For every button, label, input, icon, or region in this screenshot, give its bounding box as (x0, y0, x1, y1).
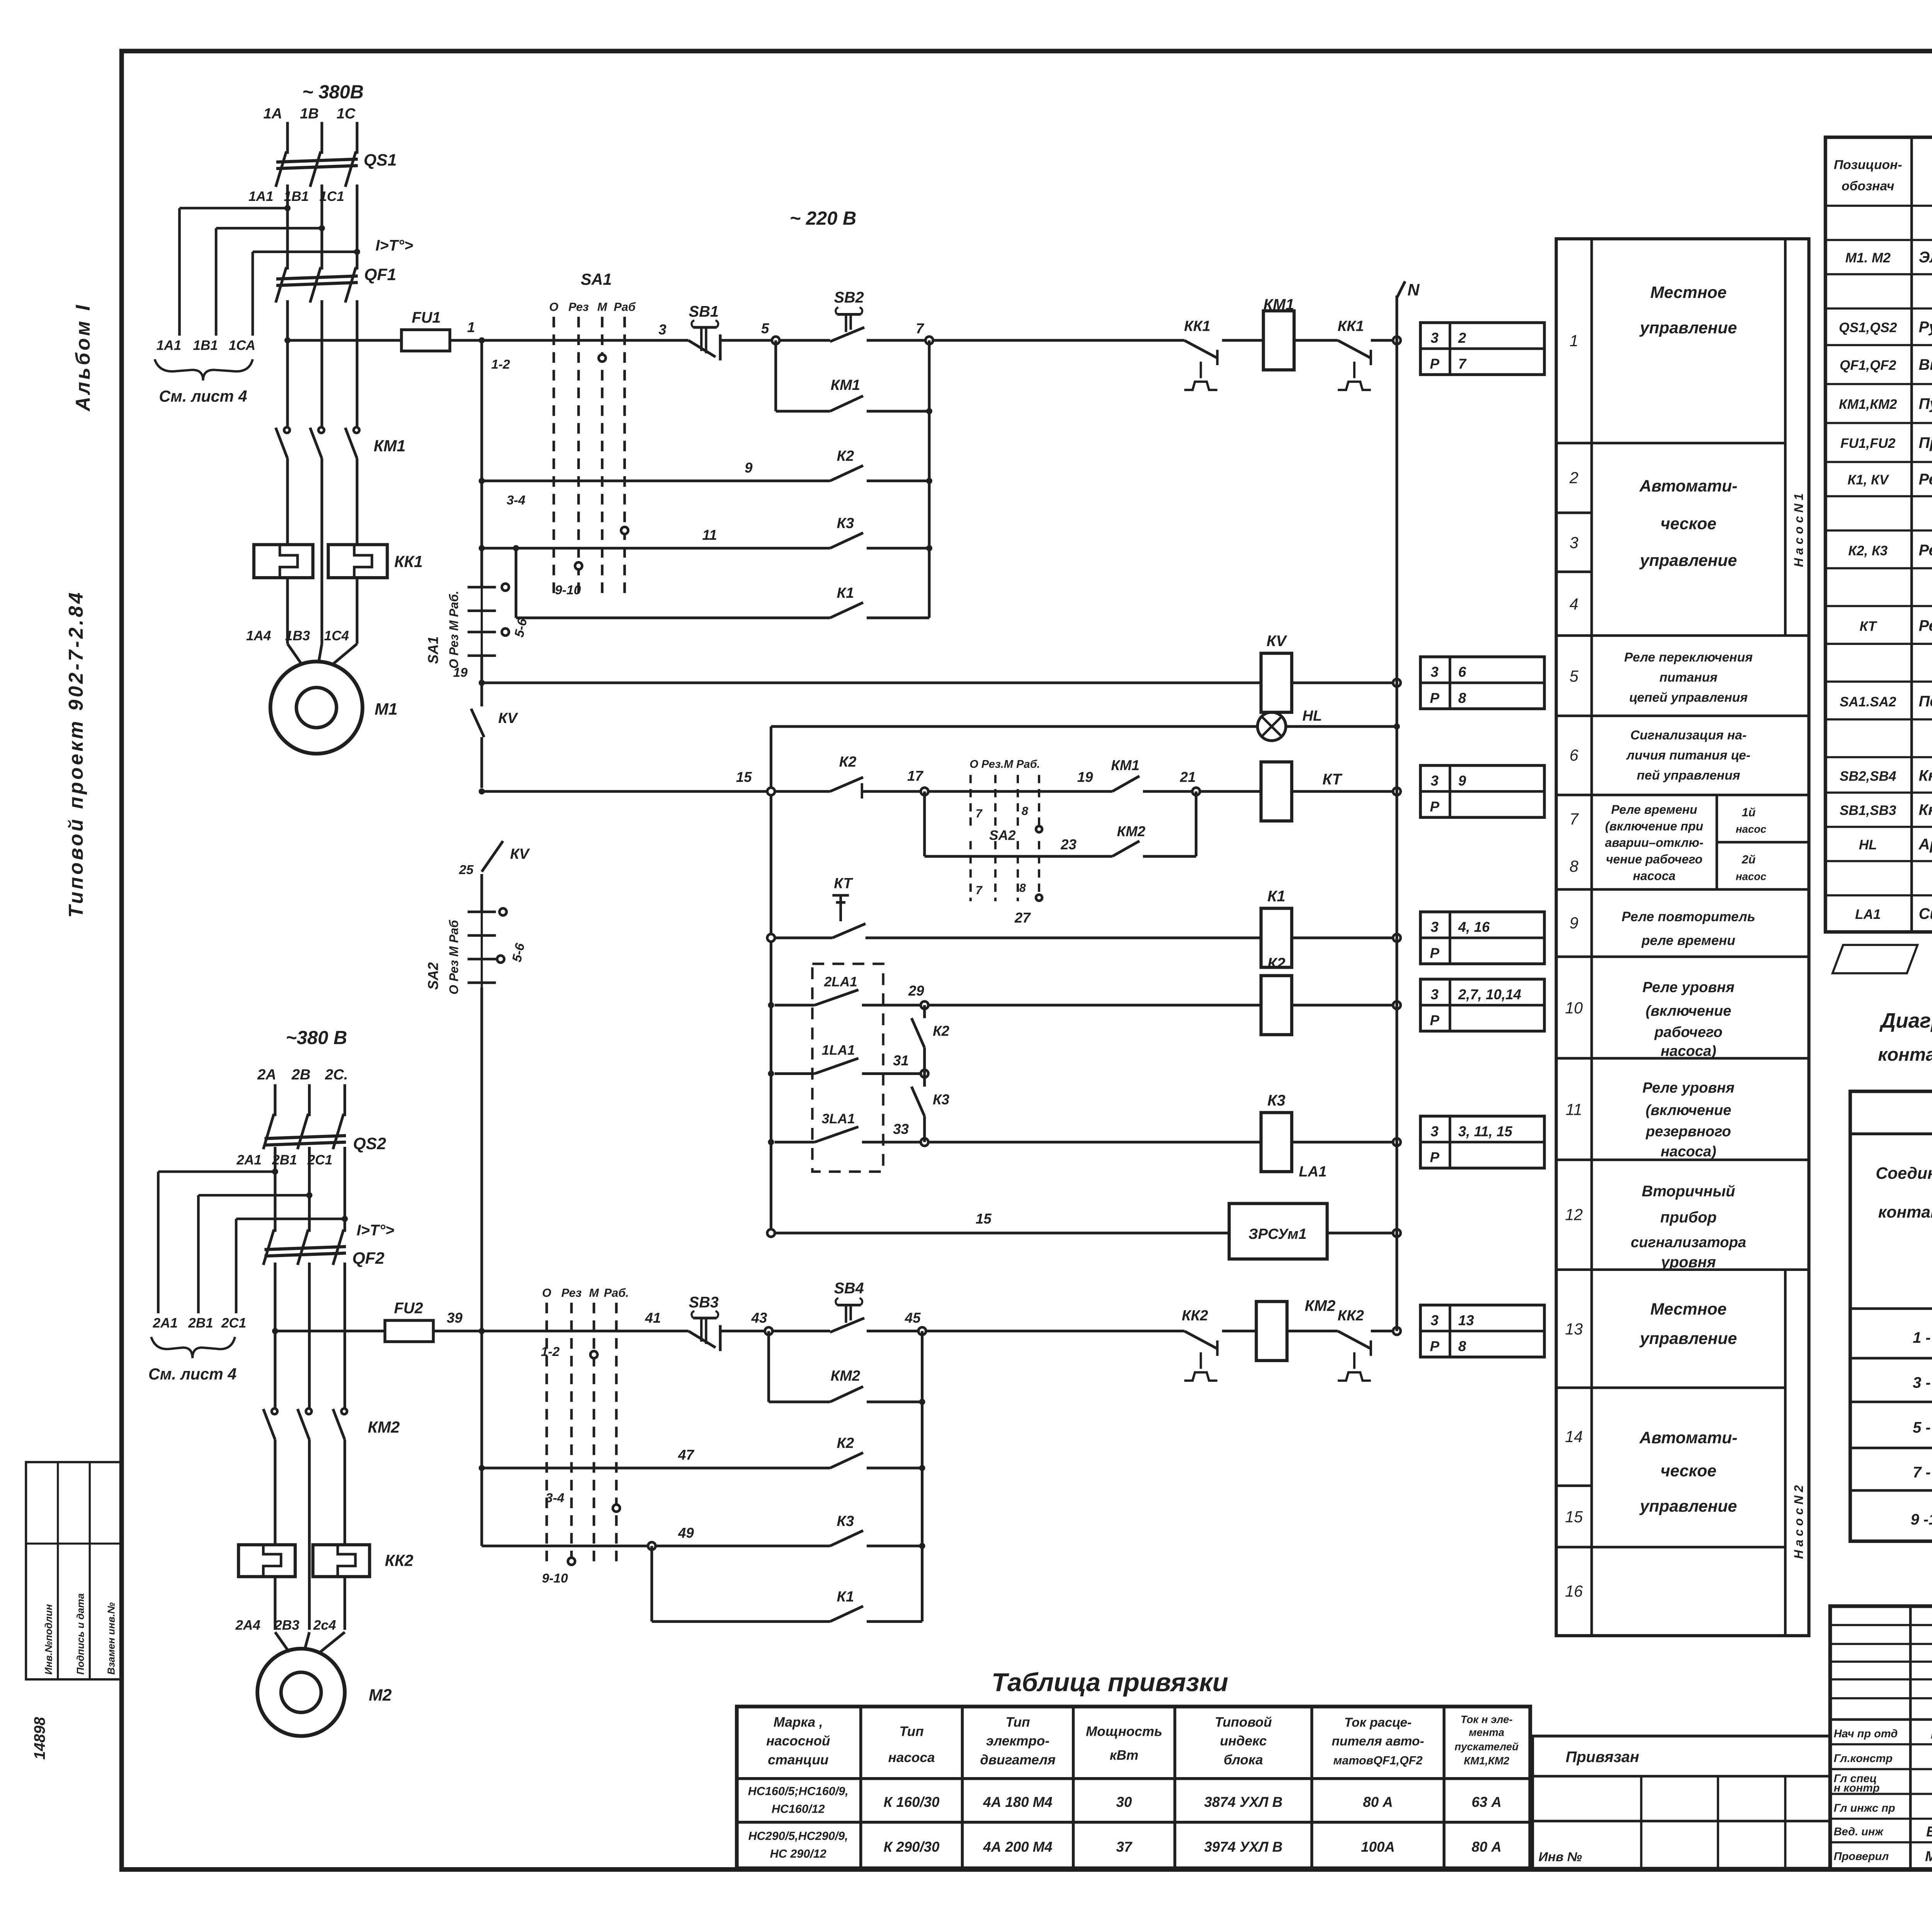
svg-text:3, 11, 15: 3, 11, 15 (1458, 1123, 1513, 1139)
svg-text:реле времени: реле времени (1641, 933, 1735, 948)
svg-text:Реле времени: Реле времени (1611, 803, 1697, 816)
svg-text:27: 27 (1014, 910, 1031, 925)
svg-text:Р: Р (1430, 1339, 1440, 1354)
svg-text:Малышев: Малышев (1925, 1849, 1932, 1864)
svg-text:39: 39 (447, 1310, 463, 1326)
svg-text:Привязан: Привязан (1566, 1749, 1639, 1766)
svg-text:О Рез М Раб.: О Рез М Раб. (447, 591, 461, 669)
svg-text:80 А: 80 А (1363, 1794, 1393, 1810)
svg-text:уровня: уровня (1660, 1254, 1716, 1271)
svg-text:10: 10 (1565, 999, 1583, 1017)
svg-text:К2: К2 (839, 754, 857, 770)
svg-text:К3: К3 (837, 515, 854, 532)
svg-text:Р: Р (1430, 1150, 1440, 1165)
svg-text:цепей управления: цепей управления (1629, 691, 1748, 705)
svg-text:КV: КV (498, 710, 519, 726)
svg-text:блока: блока (1224, 1752, 1263, 1767)
svg-text:1А: 1А (263, 105, 282, 122)
svg-text:Гл инжс пр: Гл инжс пр (1834, 1802, 1895, 1814)
svg-text:КК1: КК1 (394, 553, 423, 571)
svg-text:11: 11 (1566, 1101, 1582, 1118)
svg-text:1С: 1С (337, 105, 356, 122)
svg-text:насос: насос (1736, 823, 1766, 835)
svg-text:индекс: индекс (1220, 1733, 1267, 1749)
svg-text:управление: управление (1639, 1497, 1737, 1516)
svg-text:3: 3 (658, 322, 666, 338)
svg-text:управление: управление (1639, 1329, 1737, 1348)
svg-text:3: 3 (1431, 664, 1439, 680)
svg-text:1: 1 (1570, 332, 1578, 350)
svg-text:8: 8 (1570, 857, 1578, 875)
svg-text:16: 16 (1565, 1582, 1583, 1600)
svg-text:Рез: Рез (561, 1286, 582, 1300)
svg-text:19: 19 (453, 666, 468, 680)
svg-text:КМ1: КМ1 (831, 377, 861, 393)
svg-text:11: 11 (702, 527, 717, 543)
svg-text:К3: К3 (1267, 1092, 1286, 1109)
svg-text:SА1: SА1 (581, 270, 612, 288)
svg-text:15: 15 (736, 769, 752, 785)
svg-text:LА1: LА1 (1299, 1163, 1327, 1180)
svg-text:47: 47 (678, 1447, 694, 1463)
svg-text:пускателей: пускателей (1454, 1740, 1519, 1752)
svg-text:Ток н эле-: Ток н эле- (1461, 1713, 1513, 1725)
svg-text:К1, КV: К1, КV (1847, 473, 1889, 488)
svg-text:К3: К3 (933, 1092, 949, 1107)
svg-text:2А1: 2А1 (236, 1153, 262, 1168)
svg-text:3: 3 (1431, 919, 1439, 935)
svg-text:QS1: QS1 (364, 151, 397, 170)
svg-text:1В1: 1В1 (193, 338, 218, 353)
svg-text:Р: Р (1430, 945, 1440, 961)
svg-text:8: 8 (1019, 881, 1026, 895)
svg-text:КМ2: КМ2 (368, 1418, 400, 1436)
svg-text:прибор: прибор (1660, 1209, 1717, 1226)
svg-text:Предохранитель I пл.в ст. = 6: Предохранитель I пл.в ст. = 6 А (1919, 434, 1932, 451)
svg-text:29: 29 (908, 983, 924, 999)
svg-text:насос: насос (1736, 870, 1766, 882)
svg-text:3: 3 (1431, 987, 1439, 1002)
svg-text:QF2: QF2 (352, 1249, 384, 1267)
svg-text:FU1,FU2: FU1,FU2 (1840, 436, 1896, 451)
svg-text:2: 2 (1569, 469, 1578, 487)
svg-text:НС290/5,НС290/9,: НС290/5,НС290/9, (748, 1830, 848, 1843)
svg-text:КМ1: КМ1 (1111, 757, 1139, 773)
svg-text:3974 УХЛ В: 3974 УХЛ В (1204, 1839, 1282, 1855)
svg-text:Тип: Тип (900, 1724, 924, 1739)
svg-text:9-10: 9-10 (555, 583, 581, 597)
svg-text:КV: КV (1267, 633, 1287, 650)
svg-text:80 А: 80 А (1471, 1839, 1501, 1855)
svg-text:НL: НL (1859, 837, 1877, 852)
svg-text:3-4: 3-4 (546, 1491, 565, 1505)
svg-text:Реле повторитель: Реле повторитель (1622, 909, 1755, 924)
svg-text:КМ1: КМ1 (374, 437, 406, 455)
svg-text:О: О (549, 300, 558, 313)
svg-text:кВт: кВт (1110, 1748, 1138, 1763)
svg-text:КМ1,КМ2: КМ1,КМ2 (1839, 397, 1897, 412)
svg-text:7: 7 (1570, 810, 1579, 828)
svg-text:13: 13 (1565, 1320, 1583, 1338)
svg-text:Местное: Местное (1650, 1300, 1726, 1318)
svg-text:FU1: FU1 (412, 309, 441, 326)
svg-text:2С1: 2С1 (307, 1153, 332, 1168)
svg-text:3: 3 (1570, 534, 1578, 552)
svg-text:К2, К3: К2, К3 (1848, 543, 1888, 558)
svg-text:К2: К2 (837, 448, 854, 464)
svg-text:Инв №: Инв № (1539, 1850, 1582, 1864)
svg-text:КТ: КТ (1859, 619, 1877, 634)
svg-text:КК2: КК2 (1338, 1307, 1364, 1324)
svg-text:17: 17 (907, 768, 923, 784)
svg-text:Реле времени U~220В: Реле времени U~220В (1919, 617, 1932, 634)
svg-text:Раб: Раб (614, 300, 636, 313)
svg-text:(включение при: (включение при (1605, 819, 1703, 833)
svg-text:~ 220 В: ~ 220 В (790, 208, 857, 229)
svg-text:М: М (597, 300, 607, 313)
svg-text:45: 45 (905, 1310, 921, 1326)
svg-text:К1: К1 (837, 585, 854, 601)
svg-text:Ток расце-: Ток расце- (1344, 1715, 1412, 1730)
svg-text:КК1: КК1 (1338, 318, 1364, 334)
svg-text:КМ2: КМ2 (1117, 823, 1146, 839)
svg-text:НС160/12: НС160/12 (772, 1802, 825, 1815)
svg-text:2А: 2А (257, 1067, 276, 1083)
svg-text:4, 16: 4, 16 (1458, 919, 1490, 935)
svg-text:QF1,QF2: QF1,QF2 (1840, 358, 1896, 373)
svg-text:питания: питания (1660, 670, 1718, 685)
svg-text:Кнопка исполн 4 толк. черный: Кнопка исполн 4 толк. черный (1919, 767, 1932, 784)
svg-text:ческое: ческое (1660, 1461, 1716, 1480)
svg-text:1А4: 1А4 (246, 628, 271, 643)
svg-text:электро-: электро- (986, 1733, 1049, 1749)
svg-text:Н а с о с N 1: Н а с о с N 1 (1792, 493, 1806, 567)
svg-text:2й: 2й (1742, 853, 1756, 866)
svg-text:8: 8 (1458, 690, 1466, 706)
svg-text:личия питания це-: личия питания це- (1626, 748, 1750, 763)
svg-text:Пускатель U~220В Iнз=: Пускатель U~220В Iнз= (1919, 395, 1932, 412)
svg-text:LА1: LА1 (1855, 907, 1881, 922)
svg-text:2А4: 2А4 (235, 1618, 260, 1633)
svg-text:1А1: 1А1 (248, 189, 273, 204)
svg-text:КМ2: КМ2 (831, 1368, 861, 1384)
svg-text:О Рез.М Раб.: О Рез.М Раб. (969, 758, 1040, 771)
svg-text:9: 9 (1570, 914, 1578, 932)
svg-text:100А: 100А (1361, 1839, 1395, 1855)
svg-text:3: 3 (1431, 330, 1439, 346)
svg-text:2С.: 2С. (325, 1067, 348, 1083)
svg-text:SВ2,SВ4: SВ2,SВ4 (1840, 769, 1896, 784)
svg-text:13: 13 (1458, 1312, 1474, 1328)
svg-text:FU2: FU2 (394, 1300, 423, 1317)
svg-text:14898: 14898 (31, 1716, 48, 1759)
svg-text:SА2: SА2 (425, 962, 441, 990)
svg-text:2С1: 2С1 (221, 1315, 246, 1330)
svg-text:2А1: 2А1 (153, 1315, 178, 1330)
svg-text:М1: М1 (375, 700, 398, 718)
svg-text:двигателя: двигателя (980, 1752, 1056, 1767)
svg-text:Диаграмма замыкания: Диаграмма замыкания (1879, 1009, 1932, 1032)
svg-text:30: 30 (1116, 1794, 1132, 1810)
svg-text:рабочего: рабочего (1654, 1024, 1723, 1041)
svg-text:I>T°>: I>T°> (357, 1222, 395, 1239)
svg-text:сигнализатора: сигнализатора (1631, 1234, 1746, 1251)
svg-text:QS2: QS2 (353, 1135, 386, 1153)
svg-text:управление: управление (1639, 318, 1737, 337)
svg-text:пителя авто-: пителя авто- (1332, 1734, 1424, 1749)
svg-text:37: 37 (1116, 1839, 1133, 1855)
svg-text:7: 7 (916, 320, 924, 336)
svg-text:3: 3 (1431, 773, 1439, 789)
svg-text:HL: HL (1302, 708, 1322, 724)
svg-text:4А 180 М4: 4А 180 М4 (983, 1794, 1052, 1810)
svg-text:25: 25 (459, 863, 474, 877)
svg-text:К2: К2 (1267, 955, 1286, 972)
svg-text:Реле U - 220В: Реле U - 220В (1919, 542, 1932, 559)
svg-text:Рубильник: Рубильник (1919, 318, 1932, 335)
svg-text:К 290/30: К 290/30 (884, 1839, 940, 1855)
svg-text:(включение: (включение (1646, 1003, 1731, 1019)
svg-text:9-10: 9-10 (542, 1571, 568, 1585)
svg-text:19: 19 (1077, 769, 1093, 785)
svg-text:Р: Р (1430, 690, 1440, 706)
svg-text:Автомати-: Автомати- (1639, 477, 1738, 495)
svg-text:2В1: 2В1 (272, 1153, 297, 1168)
svg-text:1СА: 1СА (229, 338, 255, 353)
svg-text:2,7, 10,14: 2,7, 10,14 (1458, 987, 1521, 1002)
svg-text:21: 21 (1180, 769, 1196, 785)
svg-text:(включение: (включение (1646, 1102, 1731, 1118)
svg-text:3: 3 (1431, 1123, 1439, 1139)
svg-text:3-4: 3-4 (507, 493, 526, 508)
svg-text:Вторичный: Вторичный (1642, 1183, 1735, 1200)
svg-text:1В: 1В (300, 105, 319, 122)
svg-text:I>T°>: I>T°> (376, 237, 413, 254)
svg-text:7: 7 (976, 884, 983, 897)
svg-text:1С4: 1С4 (324, 628, 349, 643)
svg-text:4: 4 (1570, 595, 1578, 613)
svg-text:насоса): насоса) (1661, 1043, 1716, 1060)
svg-text:7 - 8: 7 - 8 (1913, 1464, 1932, 1481)
svg-text:5 - 6: 5 - 6 (1913, 1419, 1932, 1436)
svg-text:1LА1: 1LА1 (822, 1043, 855, 1058)
svg-text:КМ1,КМ2: КМ1,КМ2 (1464, 1755, 1510, 1767)
svg-text:аварии–отклю-: аварии–отклю- (1605, 836, 1704, 850)
svg-text:контактов: контактов (1878, 1203, 1932, 1221)
svg-text:М2: М2 (369, 1686, 392, 1704)
svg-text:Реле переключения: Реле переключения (1624, 650, 1753, 665)
svg-text:Мощность: Мощность (1086, 1724, 1162, 1739)
svg-text:станции: станции (768, 1752, 828, 1767)
svg-text:9 -10: 9 -10 (1911, 1511, 1932, 1528)
svg-text:Типовой: Типовой (1215, 1715, 1272, 1730)
svg-text:Автомати-: Автомати- (1639, 1429, 1738, 1447)
svg-text:Переключатель: Переключатель (1919, 693, 1932, 710)
svg-text:пей управления: пей управления (1637, 769, 1740, 783)
svg-text:1С1: 1С1 (319, 189, 344, 204)
svg-text:КV: КV (510, 845, 530, 862)
svg-text:~ 380В: ~ 380В (302, 82, 364, 102)
svg-text:Таблица привязки: Таблица привязки (992, 1668, 1228, 1697)
svg-text:матовQF1,QF2: матовQF1,QF2 (1333, 1754, 1423, 1767)
svg-text:Тип: Тип (1006, 1715, 1030, 1730)
svg-text:Подпись и дата: Подпись и дата (75, 1593, 86, 1675)
svg-text:1-2: 1-2 (491, 357, 510, 372)
svg-text:управление: управление (1639, 551, 1737, 570)
svg-text:КК1: КК1 (1184, 318, 1210, 334)
svg-text:НС 290/12: НС 290/12 (770, 1847, 827, 1860)
svg-text:К2: К2 (933, 1023, 950, 1039)
svg-text:2: 2 (1458, 330, 1466, 346)
svg-text:3874 УХЛ В: 3874 УХЛ В (1204, 1794, 1282, 1810)
svg-text:1 - 2: 1 - 2 (1913, 1329, 1932, 1346)
svg-text:~380 В: ~380 В (286, 1027, 347, 1048)
svg-text:Реле уровня: Реле уровня (1643, 979, 1735, 996)
svg-text:Сигнализация на-: Сигнализация на- (1630, 728, 1747, 743)
svg-text:1В3: 1В3 (285, 628, 310, 643)
svg-text:КМ1: КМ1 (1264, 296, 1294, 313)
svg-text:Р: Р (1430, 799, 1440, 815)
svg-text:SВ1,SВ3: SВ1,SВ3 (1840, 803, 1896, 818)
svg-text:КК2: КК2 (1182, 1307, 1208, 1324)
svg-text:2В: 2В (291, 1067, 311, 1083)
svg-text:НС160/5;НС160/9,: НС160/5;НС160/9, (748, 1784, 849, 1798)
svg-text:SВ4: SВ4 (834, 1280, 864, 1297)
svg-text:N: N (1407, 281, 1420, 299)
svg-text:насоса: насоса (888, 1750, 935, 1765)
svg-text:Арматура: Арматура (1918, 836, 1932, 853)
svg-text:49: 49 (678, 1525, 694, 1541)
svg-text:Позицион-: Позицион- (1834, 158, 1902, 172)
svg-text:5: 5 (761, 320, 769, 336)
svg-text:SВ2: SВ2 (834, 289, 864, 306)
svg-text:2В1: 2В1 (188, 1315, 213, 1330)
svg-text:К 160/30: К 160/30 (884, 1794, 940, 1810)
svg-text:SА2: SА2 (989, 828, 1016, 843)
svg-text:КК2: КК2 (385, 1552, 413, 1570)
svg-text:Выключатель Iр =: Выключатель Iр = (1919, 356, 1932, 373)
svg-text:Марка ,: Марка , (774, 1715, 823, 1730)
svg-text:чение рабочего: чение рабочего (1606, 852, 1702, 866)
svg-text:SА1: SА1 (425, 636, 441, 664)
svg-text:SВ1: SВ1 (689, 303, 719, 320)
svg-text:Проверил: Проверил (1834, 1851, 1889, 1863)
svg-text:Сигнализатор уровня ~220В 15В·: Сигнализатор уровня ~220В 15В·А (1919, 905, 1932, 922)
svg-text:См. лист 4: См. лист 4 (159, 388, 247, 405)
svg-text:К2: К2 (837, 1435, 854, 1451)
svg-text:15: 15 (976, 1211, 992, 1227)
svg-text:мента: мента (1469, 1726, 1504, 1738)
svg-text:1А1: 1А1 (156, 338, 181, 353)
svg-text:О Рез М Раб: О Рез М Раб (447, 920, 461, 995)
svg-text:М1. М2: М1. М2 (1845, 250, 1891, 265)
svg-text:Инв.№подлин: Инв.№подлин (43, 1604, 54, 1675)
svg-text:7: 7 (1458, 356, 1467, 372)
svg-text:15: 15 (1565, 1508, 1583, 1526)
svg-text:КТ: КТ (1322, 771, 1343, 788)
svg-text:Взамен инв.№: Взамен инв.№ (105, 1602, 117, 1674)
svg-text:К1: К1 (837, 1588, 854, 1605)
svg-text:обознач: обознач (1842, 179, 1894, 194)
svg-text:3 - 4: 3 - 4 (1913, 1374, 1932, 1391)
svg-text:Р: Р (1430, 356, 1440, 372)
svg-text:Беликова: Беликова (1926, 1823, 1932, 1839)
svg-text:резервного: резервного (1646, 1123, 1731, 1140)
svg-text:Гл.констр: Гл.констр (1834, 1752, 1893, 1765)
svg-text:8: 8 (1022, 805, 1028, 818)
svg-text:63 А: 63 А (1471, 1794, 1501, 1810)
svg-text:Кнопка исполн 5 толк красный: Кнопка исполн 5 толк красный (1919, 801, 1932, 818)
svg-text:2В3: 2В3 (274, 1618, 299, 1633)
svg-text:43: 43 (751, 1310, 767, 1326)
svg-text:О: О (542, 1286, 551, 1300)
svg-text:9: 9 (745, 460, 753, 476)
svg-text:2LА1: 2LА1 (824, 974, 857, 989)
svg-text:QF1: QF1 (364, 265, 396, 284)
svg-text:Вед. инж: Вед. инж (1834, 1825, 1884, 1838)
svg-text:К1: К1 (1267, 888, 1286, 905)
svg-text:41: 41 (645, 1310, 661, 1326)
svg-text:К3: К3 (837, 1513, 854, 1529)
svg-text:12: 12 (1565, 1206, 1583, 1223)
svg-text:насоса: насоса (1633, 869, 1675, 883)
svg-text:9: 9 (1458, 773, 1466, 789)
svg-text:5: 5 (1570, 667, 1579, 685)
svg-text:Рез: Рез (568, 300, 589, 313)
svg-text:3LА1: 3LА1 (822, 1111, 855, 1126)
svg-text:1-2: 1-2 (541, 1345, 560, 1359)
svg-text:8: 8 (1458, 1339, 1466, 1354)
svg-text:Местное: Местное (1650, 283, 1726, 302)
svg-text:23: 23 (1060, 837, 1077, 852)
svg-text:ческое: ческое (1660, 515, 1716, 533)
svg-text:7: 7 (976, 807, 983, 820)
svg-text:ЗРСУм1: ЗРСУм1 (1248, 1226, 1307, 1242)
svg-text:КТ: КТ (834, 875, 854, 892)
svg-text:Типовой проект 902-7-2.84: Типовой проект 902-7-2.84 (65, 590, 87, 918)
svg-text:3: 3 (1431, 1312, 1439, 1328)
svg-text:14: 14 (1565, 1428, 1583, 1446)
svg-text:Соединение: Соединение (1876, 1164, 1932, 1182)
svg-text:Альбом I: Альбом I (72, 303, 94, 412)
svg-text:насоса): насоса) (1661, 1143, 1716, 1160)
svg-text:Электродвигатель ~ 380 В: Электродвигатель ~ 380 В (1919, 249, 1932, 266)
svg-text:33: 33 (893, 1121, 909, 1137)
svg-text:SА1.SА2: SА1.SА2 (1840, 694, 1896, 709)
svg-text:4А 200 М4: 4А 200 М4 (983, 1839, 1052, 1855)
svg-text:1й: 1й (1742, 806, 1756, 819)
svg-text:КМ2: КМ2 (1305, 1298, 1336, 1315)
svg-text:Н а с о с N 2: Н а с о с N 2 (1792, 1485, 1806, 1559)
svg-text:См. лист 4: См. лист 4 (148, 1365, 236, 1383)
svg-text:1: 1 (467, 319, 475, 335)
svg-text:SВ3: SВ3 (689, 1294, 719, 1311)
svg-text:Нач пр отд: Нач пр отд (1834, 1728, 1898, 1740)
svg-text:М: М (589, 1286, 599, 1300)
svg-text:31: 31 (893, 1053, 909, 1068)
svg-text:Раб.: Раб. (604, 1286, 629, 1300)
svg-text:1В1: 1В1 (284, 189, 309, 204)
svg-text:6: 6 (1458, 664, 1466, 680)
svg-text:6: 6 (1570, 747, 1578, 764)
svg-text:контактов переключателя: контактов переключателя (1878, 1044, 1932, 1065)
svg-text:Реле уровня: Реле уровня (1643, 1079, 1735, 1096)
svg-text:н контр: н контр (1834, 1782, 1880, 1794)
svg-text:Реле U ~ 220В: Реле U ~ 220В (1919, 471, 1932, 488)
svg-text:QS1,QS2: QS1,QS2 (1839, 320, 1897, 335)
svg-text:Р: Р (1430, 1012, 1440, 1028)
svg-text:2с4: 2с4 (313, 1618, 336, 1633)
